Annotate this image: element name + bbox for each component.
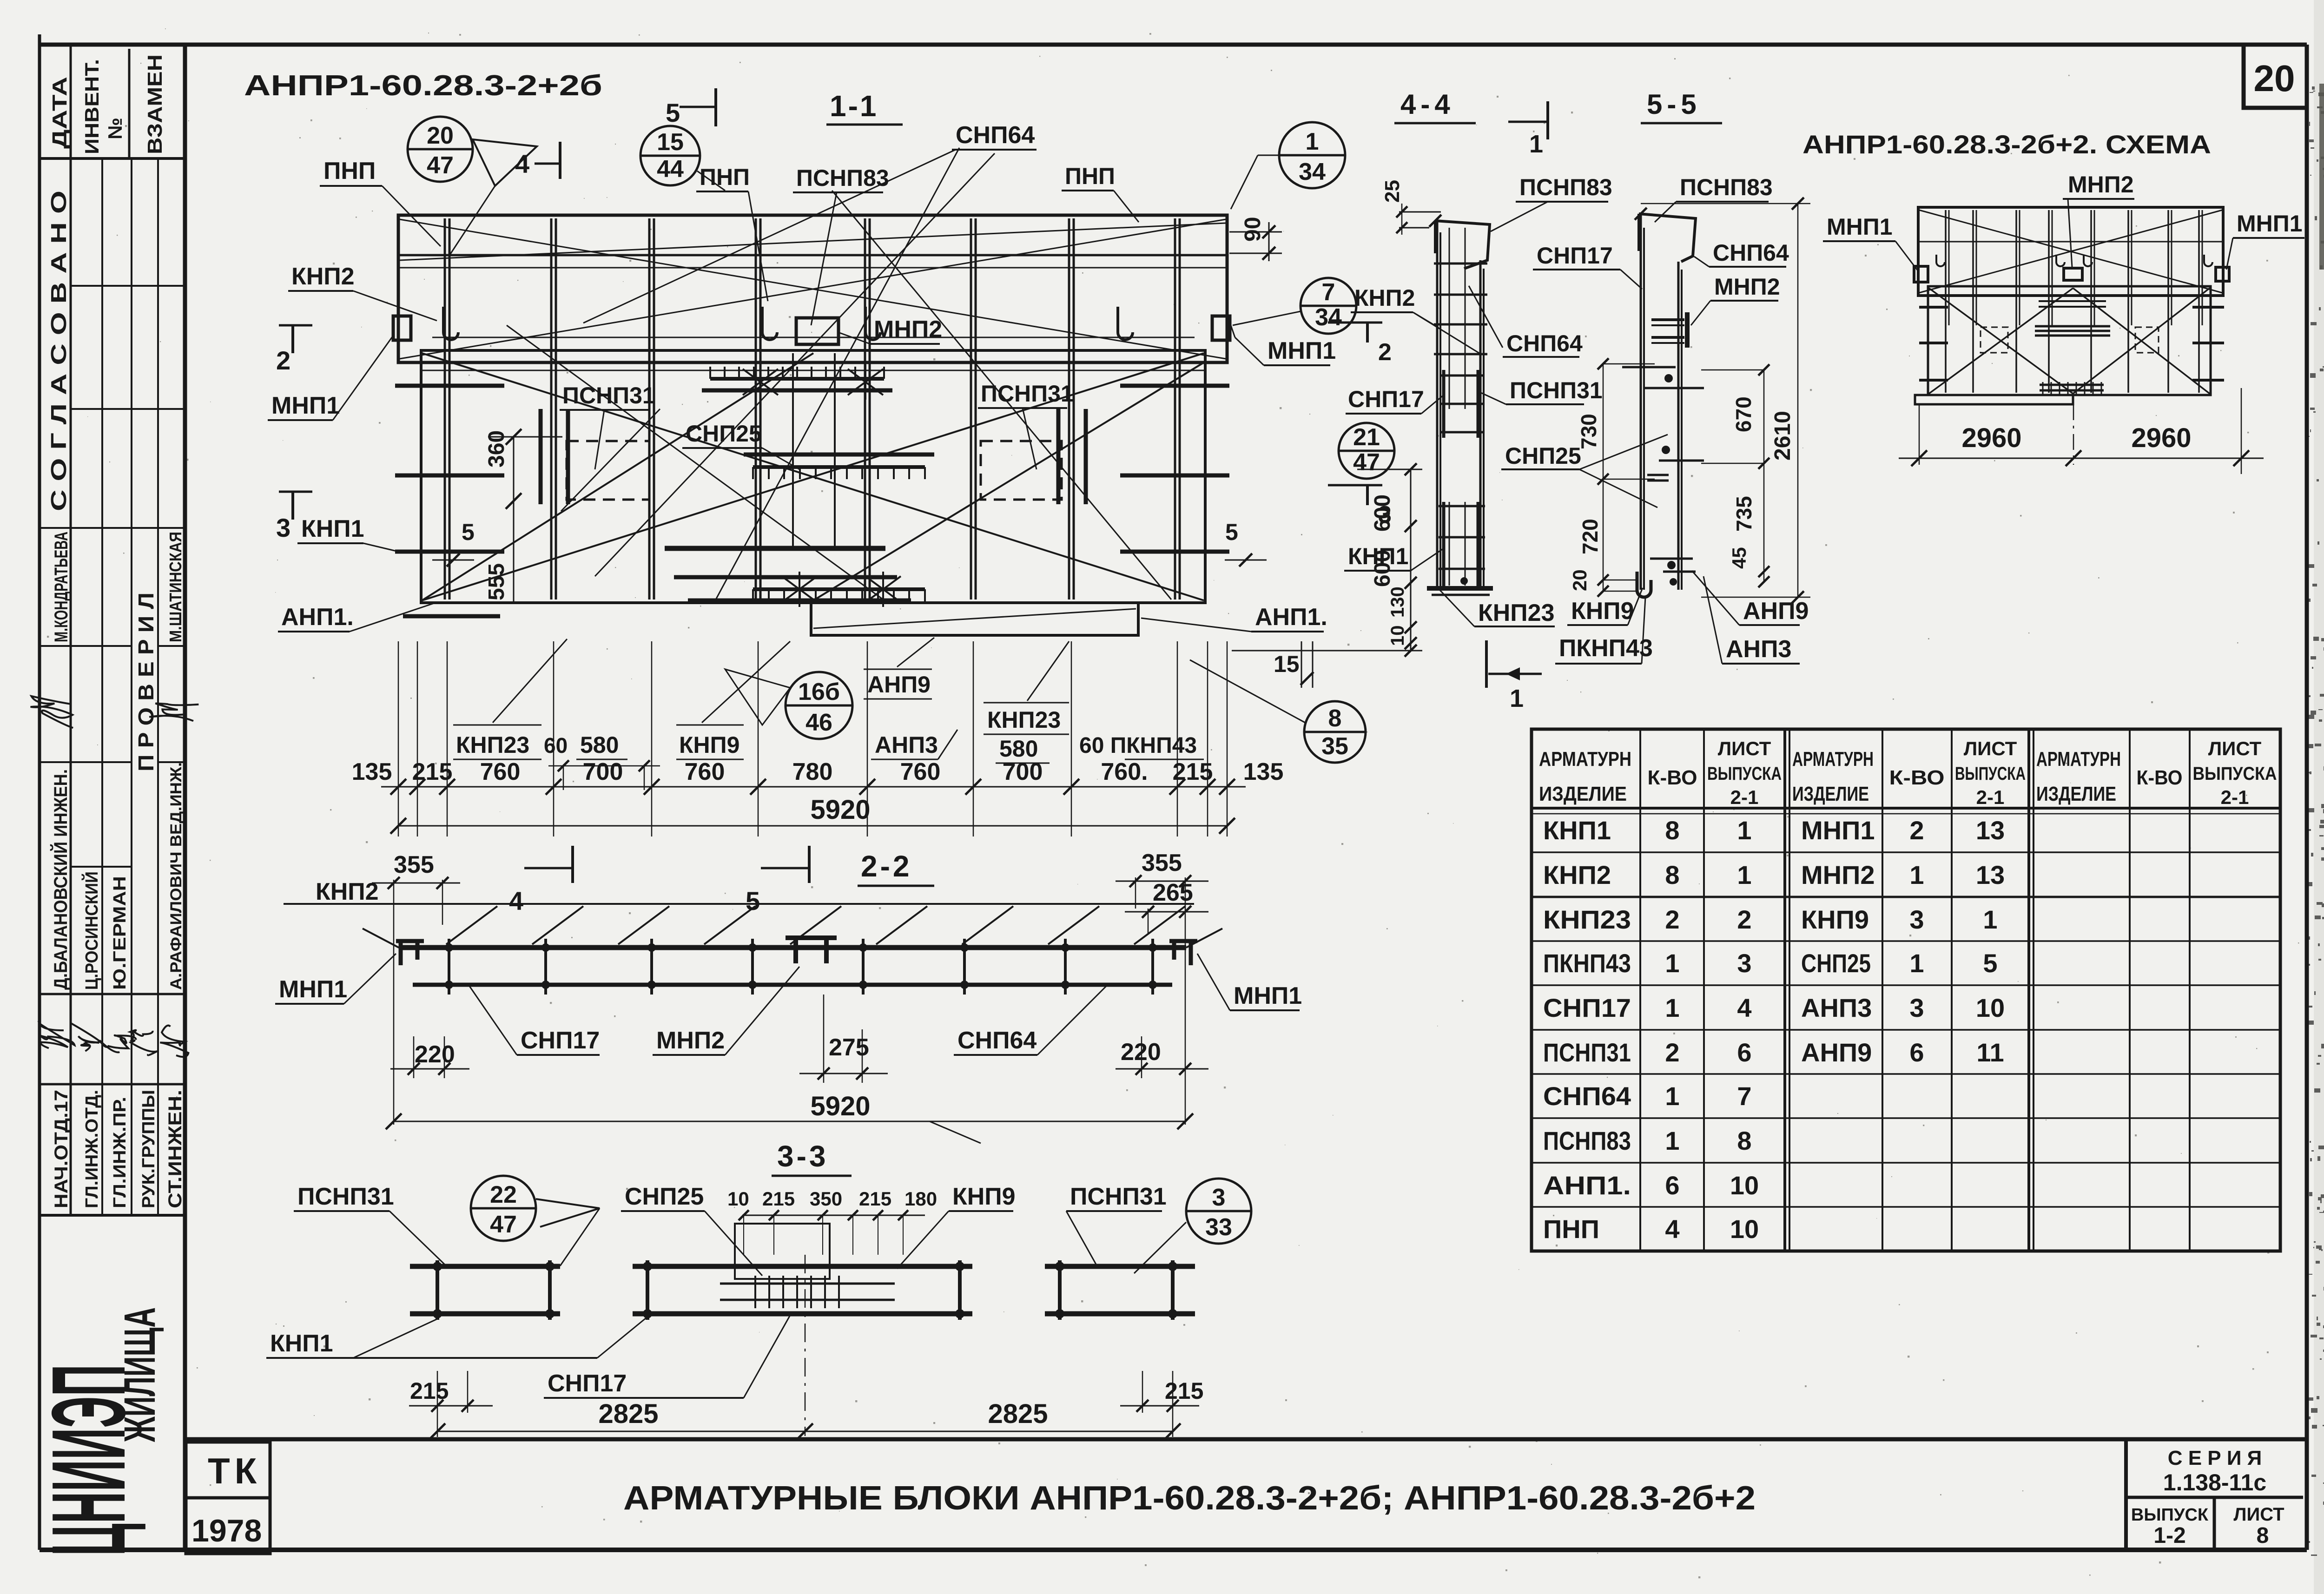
svg-text:5: 5 bbox=[1225, 519, 1238, 545]
section 2-2 top chord line bbox=[284, 903, 1194, 905]
svg-text:КНП1: КНП1 bbox=[1543, 816, 1611, 845]
svg-text:ГЛ.ИНЖ.ПР.: ГЛ.ИНЖ.ПР. bbox=[110, 1097, 130, 1208]
dimension line row2 total 5920 bbox=[398, 825, 1227, 827]
svg-text:С Е Р И Я: С Е Р И Я bbox=[2168, 1447, 2262, 1469]
svg-text:МНП2: МНП2 bbox=[874, 316, 942, 343]
schema bottom protrusion bbox=[1915, 395, 2073, 404]
svg-text:2610: 2610 bbox=[1770, 411, 1795, 461]
svg-text:7: 7 bbox=[1322, 279, 1335, 306]
svg-text:ЛИСТ: ЛИСТ bbox=[2233, 1504, 2284, 1525]
svg-text:760: 760 bbox=[685, 758, 725, 785]
svg-text:2: 2 bbox=[1665, 905, 1679, 934]
svg-text:46: 46 bbox=[805, 709, 832, 736]
callout circle 21/47 bbox=[1339, 423, 1394, 479]
svg-text:1.138-11с: 1.138-11с bbox=[2163, 1469, 2266, 1495]
4-4 rails bbox=[1436, 221, 1439, 588]
svg-text:СНП64: СНП64 bbox=[957, 1027, 1037, 1054]
svg-text:3: 3 bbox=[1909, 993, 1924, 1022]
svg-text:М.ШАТИНСКАЯ: М.ШАТИНСКАЯ bbox=[166, 532, 185, 642]
svg-text:КНП23: КНП23 bbox=[456, 732, 529, 758]
svg-text:ВЫПУСК: ВЫПУСК bbox=[2131, 1505, 2209, 1525]
svg-text:ИЗДЕЛИЕ: ИЗДЕЛИЕ bbox=[2036, 783, 2116, 805]
svg-text:РУК.ГРУППЫ: РУК.ГРУППЫ bbox=[139, 1090, 158, 1208]
svg-text:13: 13 bbox=[1976, 860, 2005, 889]
section 2-2 MNP1 end bracket left bbox=[396, 941, 424, 965]
svg-text:СНП17: СНП17 bbox=[548, 1370, 627, 1397]
svg-text:3: 3 bbox=[1378, 501, 1392, 528]
dimension line row1 bbox=[381, 786, 1246, 788]
plan view: band cross diagonals bbox=[400, 219, 1226, 359]
schema side cross bars bbox=[1919, 306, 1948, 309]
svg-text:135: 135 bbox=[352, 758, 392, 785]
svg-text:5920: 5920 bbox=[810, 1091, 870, 1121]
svg-text:34: 34 bbox=[1315, 304, 1342, 331]
svg-text:ВЫПУСКА: ВЫПУСКА bbox=[1707, 764, 1782, 784]
svg-text:ПНП: ПНП bbox=[1065, 163, 1115, 189]
svg-text:8: 8 bbox=[2257, 1523, 2269, 1548]
svg-text:360: 360 bbox=[484, 430, 509, 468]
plan view: PSNP31 heavy double bars right bbox=[1056, 409, 1061, 504]
svg-text:6: 6 bbox=[1909, 1038, 1924, 1067]
section 2-2 top chord thick bar bbox=[399, 945, 1186, 950]
svg-text:8: 8 bbox=[1665, 860, 1679, 889]
svg-text:2-2: 2-2 bbox=[861, 850, 912, 883]
svg-text:1978: 1978 bbox=[191, 1513, 262, 1548]
svg-text:670: 670 bbox=[1731, 396, 1756, 432]
svg-text:1: 1 bbox=[1737, 860, 1751, 889]
svg-text:СНП17: СНП17 bbox=[1543, 993, 1631, 1022]
svg-text:№: № bbox=[104, 118, 126, 139]
svg-text:13: 13 bbox=[1976, 816, 2005, 845]
plan view: MNP2 plate center bbox=[796, 318, 838, 344]
svg-text:215: 215 bbox=[1173, 758, 1213, 785]
svg-text:4: 4 bbox=[1737, 993, 1751, 1022]
plan view: bottom left thick bars bbox=[403, 614, 500, 619]
4-4 inner rebar verticals bbox=[1449, 228, 1450, 409]
svg-text:6: 6 bbox=[1737, 1038, 1751, 1067]
svg-text:А.РАФАИЛОВИЧ ВЕД.ИНЖ.: А.РАФАИЛОВИЧ ВЕД.ИНЖ. bbox=[167, 762, 185, 990]
svg-text:5920: 5920 bbox=[810, 795, 870, 825]
svg-text:КНП9: КНП9 bbox=[1571, 598, 1634, 625]
parts table grid bbox=[1532, 729, 2280, 1251]
svg-text:С О Г Л А С О В А Н О: С О Г Л А С О В А Н О bbox=[46, 191, 71, 511]
plan view: vertical rebar pairs bbox=[444, 218, 446, 599]
scanned paper right edge artifacts bbox=[2314, 0, 2324, 1594]
3-3 channel segment left bbox=[410, 1264, 560, 1269]
svg-text:25: 25 bbox=[1381, 180, 1404, 203]
weld flag pennant from 20/47 bbox=[473, 139, 537, 186]
plan view: dashed opening left bbox=[567, 441, 649, 500]
svg-text:КНП9: КНП9 bbox=[952, 1183, 1016, 1210]
svg-text:735: 735 bbox=[1732, 496, 1756, 532]
svg-text:20: 20 bbox=[427, 122, 454, 149]
svg-text:КНП9: КНП9 bbox=[679, 732, 739, 758]
svg-text:АРМАТУРН: АРМАТУРН bbox=[1792, 748, 1874, 771]
svg-text:2960: 2960 bbox=[1961, 423, 2021, 453]
4-4 base bar bbox=[1427, 586, 1493, 591]
svg-text:МНП1: МНП1 bbox=[1801, 816, 1875, 845]
svg-text:35: 35 bbox=[1321, 733, 1348, 760]
svg-text:1: 1 bbox=[1909, 860, 1924, 889]
svg-text:ЖИЛИЩА: ЖИЛИЩА bbox=[115, 1307, 165, 1443]
svg-text:М.КОНДРАТЬЕВА: М.КОНДРАТЬЕВА bbox=[51, 532, 72, 642]
svg-text:730: 730 bbox=[1577, 414, 1601, 449]
svg-text:180: 180 bbox=[905, 1188, 937, 1210]
callout circle 16b/46 bbox=[786, 672, 852, 739]
svg-text:45: 45 bbox=[1728, 547, 1750, 569]
svg-text:СНП64: СНП64 bbox=[956, 122, 1035, 149]
svg-text:4: 4 bbox=[515, 149, 529, 178]
left block row lines bbox=[71, 285, 185, 287]
svg-text:555: 555 bbox=[484, 563, 509, 600]
callout circle 1/34 bbox=[1279, 122, 1345, 188]
svg-text:6: 6 bbox=[1665, 1171, 1679, 1200]
4-4 upper rungs bbox=[1434, 263, 1487, 265]
schema body X diagonals bbox=[1929, 288, 2073, 394]
svg-text:МНП1: МНП1 bbox=[271, 392, 340, 419]
svg-text:ПСНП31: ПСНП31 bbox=[562, 382, 655, 408]
svg-text:10: 10 bbox=[1387, 626, 1408, 646]
svg-text:8: 8 bbox=[1665, 816, 1679, 845]
svg-text:АНПР1-60.28.3-2б+2. СХЕМА: АНПР1-60.28.3-2б+2. СХЕМА bbox=[1802, 130, 2211, 159]
svg-text:СТ.ИНЖЕН.: СТ.ИНЖЕН. bbox=[165, 1090, 185, 1208]
svg-text:МНП1: МНП1 bbox=[1234, 982, 1302, 1009]
signature row squiggles bbox=[33, 1022, 78, 1056]
plan view: bottom protruding member bbox=[811, 603, 1138, 635]
svg-text:1: 1 bbox=[1510, 685, 1524, 712]
section 2-2 MNP1 end bracket right bbox=[1169, 941, 1197, 965]
plan view: MNP1 plate right bbox=[1212, 316, 1230, 340]
5-5 rungs and node dots bbox=[1622, 366, 1676, 369]
svg-text:2-1: 2-1 bbox=[2221, 786, 2249, 808]
svg-text:СНП25: СНП25 bbox=[1505, 443, 1581, 469]
svg-text:АНП1.: АНП1. bbox=[1543, 1171, 1631, 1200]
svg-text:10: 10 bbox=[1730, 1214, 1759, 1244]
schema vertical bars bbox=[1945, 210, 1947, 393]
svg-text:ИЗДЕЛИЕ: ИЗДЕЛИЕ bbox=[1792, 783, 1869, 805]
leaders from sub labels up into plan bbox=[493, 639, 567, 723]
svg-text:П Р О В Е Р И Л: П Р О В Е Р И Л bbox=[134, 593, 158, 771]
svg-text:СНП17: СНП17 bbox=[1537, 243, 1613, 269]
5-5 top flange bbox=[1639, 214, 1696, 262]
svg-text:215: 215 bbox=[412, 758, 453, 785]
svg-text:2-1: 2-1 bbox=[1730, 786, 1759, 808]
svg-text:7: 7 bbox=[1737, 1081, 1751, 1111]
svg-text:2: 2 bbox=[1665, 1038, 1679, 1067]
svg-text:СНП64: СНП64 bbox=[1506, 330, 1583, 356]
3-3 center axis line bbox=[805, 1255, 806, 1436]
svg-text:2: 2 bbox=[1378, 339, 1392, 366]
svg-text:1: 1 bbox=[1665, 993, 1679, 1022]
svg-text:ПНП: ПНП bbox=[324, 158, 376, 184]
svg-text:ДАТА: ДАТА bbox=[48, 77, 71, 149]
plan view: PSNP31 heavy double bars left bbox=[539, 409, 543, 504]
svg-text:8: 8 bbox=[1328, 705, 1342, 732]
svg-text:1: 1 bbox=[1983, 905, 1997, 934]
svg-text:10: 10 bbox=[1730, 1171, 1759, 1200]
svg-text:АНП9: АНП9 bbox=[867, 672, 931, 698]
section 2-2 hatch diagonals bbox=[446, 906, 497, 944]
svg-text:15: 15 bbox=[657, 129, 684, 156]
svg-text:КНП1: КНП1 bbox=[270, 1330, 333, 1357]
5-5 MNP2 bracket bbox=[1651, 318, 1684, 321]
svg-text:АРМАТУРН: АРМАТУРН bbox=[1539, 748, 1631, 771]
5-5 rails bbox=[1640, 214, 1642, 590]
svg-text:К-ВО: К-ВО bbox=[2137, 766, 2183, 789]
section 2-2 MNP2 center bracket bbox=[786, 938, 837, 963]
svg-text:130: 130 bbox=[1387, 586, 1408, 618]
svg-text:33: 33 bbox=[1205, 1214, 1232, 1241]
svg-text:Ц.РОСИНСКИЙ: Ц.РОСИНСКИЙ bbox=[81, 871, 102, 990]
svg-text:215: 215 bbox=[762, 1188, 795, 1210]
schema lower body bbox=[1928, 286, 2211, 395]
section 2-2 end slopes bbox=[363, 929, 399, 948]
svg-text:10: 10 bbox=[1976, 993, 2005, 1022]
svg-text:1: 1 bbox=[1737, 816, 1751, 845]
svg-text:ВЗАМЕН: ВЗАМЕН bbox=[144, 54, 166, 154]
svg-text:3-3: 3-3 bbox=[777, 1140, 829, 1173]
schema MNP2 plate center bbox=[2064, 268, 2082, 280]
svg-text:КНП1: КНП1 bbox=[301, 515, 364, 542]
svg-text:КНП23: КНП23 bbox=[1543, 905, 1631, 934]
TK year box bbox=[186, 1442, 270, 1498]
3-3 channel segment right bbox=[1045, 1264, 1195, 1269]
svg-text:60: 60 bbox=[544, 733, 568, 757]
callout circle 3/33 bbox=[1186, 1179, 1251, 1244]
3-3 channel segment middle bbox=[633, 1264, 972, 1269]
svg-text:355: 355 bbox=[394, 851, 434, 878]
svg-text:47: 47 bbox=[427, 152, 454, 179]
svg-text:МНП1: МНП1 bbox=[2237, 211, 2303, 237]
svg-text:5: 5 bbox=[1983, 948, 1997, 978]
svg-text:2-1: 2-1 bbox=[1976, 786, 2005, 808]
svg-text:ПНП: ПНП bbox=[1543, 1214, 1599, 1244]
svg-text:МНП2: МНП2 bbox=[1714, 274, 1780, 300]
plan view: dashed opening right bbox=[981, 441, 1062, 500]
svg-text:2: 2 bbox=[1737, 905, 1751, 934]
svg-text:760: 760 bbox=[480, 758, 521, 785]
svg-text:МНП2: МНП2 bbox=[1801, 860, 1875, 889]
svg-text:580: 580 bbox=[580, 732, 619, 758]
svg-text:3: 3 bbox=[276, 513, 290, 542]
svg-text:16б: 16б bbox=[798, 678, 840, 705]
svg-text:АНП9: АНП9 bbox=[1743, 598, 1809, 625]
svg-text:1-1: 1-1 bbox=[830, 89, 878, 123]
svg-text:ИНВЕНТ.: ИНВЕНТ. bbox=[81, 59, 103, 154]
callout circle 22/47 bbox=[471, 1176, 536, 1241]
svg-text:АНП9: АНП9 bbox=[1801, 1038, 1872, 1067]
svg-text:47: 47 bbox=[490, 1211, 517, 1238]
plan view: central welded mesh combs bbox=[710, 377, 884, 381]
schema dashed openings bbox=[1981, 327, 2008, 353]
svg-text:ТК: ТК bbox=[208, 1450, 261, 1491]
svg-text:60 ПКНП43: 60 ПКНП43 bbox=[1079, 733, 1197, 758]
section 2-2 studs with dots bbox=[448, 939, 450, 995]
svg-text:355: 355 bbox=[1142, 850, 1182, 876]
bottom section mark 1 bbox=[1485, 640, 1488, 688]
plan view: PSNP83 hanger verticals bbox=[792, 353, 794, 548]
svg-text:Д.БАЛАНОВСКИЙ ИНЖЕН.: Д.БАЛАНОВСКИЙ ИНЖЕН. bbox=[50, 769, 71, 990]
5-5 bottom hook bbox=[1637, 572, 1651, 597]
svg-text:МНП1: МНП1 bbox=[1268, 337, 1336, 364]
svg-text:СНП17: СНП17 bbox=[521, 1027, 600, 1054]
svg-text:350: 350 bbox=[810, 1188, 842, 1210]
left title block column grid bbox=[70, 45, 72, 1215]
svg-text:ПСНП31: ПСНП31 bbox=[297, 1183, 394, 1210]
svg-text:КНП2: КНП2 bbox=[316, 878, 379, 905]
svg-text:700: 700 bbox=[583, 758, 623, 785]
svg-text:2825: 2825 bbox=[988, 1399, 1048, 1429]
svg-text:265: 265 bbox=[1153, 879, 1193, 906]
callout circle 7/34 bbox=[1301, 278, 1356, 334]
schema MNP1 plate right bbox=[2216, 267, 2229, 281]
4-4 lower KNP23 insert bbox=[1442, 502, 1446, 588]
svg-text:215: 215 bbox=[859, 1188, 891, 1210]
svg-text:3: 3 bbox=[1909, 905, 1924, 934]
svg-text:К-ВО: К-ВО bbox=[1889, 766, 1945, 789]
svg-text:СНП25: СНП25 bbox=[686, 421, 762, 447]
svg-text:СНП64: СНП64 bbox=[1713, 240, 1789, 266]
series stamp box bbox=[2124, 1439, 2128, 1550]
svg-text:ВЫПУСКА: ВЫПУСКА bbox=[2193, 764, 2277, 784]
plan view: right edge cross bars bbox=[1120, 384, 1229, 388]
svg-text:АНП1.: АНП1. bbox=[1255, 604, 1327, 631]
svg-text:АРМАТУРН: АРМАТУРН bbox=[2036, 748, 2121, 771]
svg-text:47: 47 bbox=[1353, 449, 1380, 476]
svg-text:4: 4 bbox=[1665, 1214, 1679, 1244]
outer page border frame bbox=[40, 43, 2307, 47]
svg-text:215: 215 bbox=[1165, 1378, 1203, 1404]
svg-text:ПКНП43: ПКНП43 bbox=[1543, 948, 1631, 978]
svg-text:1: 1 bbox=[1909, 948, 1924, 978]
svg-text:ПСНП31: ПСНП31 bbox=[1510, 377, 1603, 403]
plan view: star splice marks bbox=[743, 364, 778, 400]
svg-text:21: 21 bbox=[1353, 424, 1380, 451]
svg-text:2825: 2825 bbox=[598, 1399, 658, 1429]
svg-text:22: 22 bbox=[490, 1181, 517, 1208]
svg-text:ЛИСТ: ЛИСТ bbox=[1718, 738, 1771, 759]
svg-text:2: 2 bbox=[1909, 816, 1924, 845]
svg-text:1: 1 bbox=[1665, 1126, 1679, 1155]
svg-text:КНП2: КНП2 bbox=[291, 263, 355, 290]
svg-text:НАЧ.ОТД.17: НАЧ.ОТД.17 bbox=[51, 1090, 72, 1208]
svg-text:АНПР1-60.28.3-2+2б: АНПР1-60.28.3-2+2б bbox=[244, 70, 602, 102]
svg-text:МНП2: МНП2 bbox=[656, 1027, 725, 1054]
plan view: lower rect big X diagonals bbox=[422, 353, 1204, 600]
svg-text:К-ВО: К-ВО bbox=[1648, 766, 1697, 789]
bottom title strip frame bbox=[185, 1437, 2307, 1442]
svg-text:ЛИСТ: ЛИСТ bbox=[1964, 738, 2017, 759]
svg-text:20: 20 bbox=[2254, 58, 2295, 99]
svg-text:4-4: 4-4 bbox=[1400, 89, 1455, 120]
svg-text:ЛИСТ: ЛИСТ bbox=[2208, 738, 2262, 759]
svg-text:34: 34 bbox=[1299, 158, 1326, 185]
svg-text:СНП17: СНП17 bbox=[1348, 386, 1424, 412]
page number 20 box bbox=[2244, 46, 2307, 108]
svg-text:1: 1 bbox=[1529, 130, 1543, 158]
svg-text:1: 1 bbox=[1306, 128, 1319, 155]
svg-text:ПНП: ПНП bbox=[700, 164, 750, 190]
svg-text:3: 3 bbox=[1212, 1184, 1226, 1211]
svg-text:90: 90 bbox=[1241, 217, 1265, 242]
svg-text:ПСНП31: ПСНП31 bbox=[1070, 1183, 1167, 1210]
svg-text:760: 760 bbox=[900, 758, 941, 785]
svg-text:ПСНП83: ПСНП83 bbox=[1519, 174, 1612, 200]
schema dimension 2960+2960 bbox=[1919, 404, 1920, 465]
svg-text:АНП3: АНП3 bbox=[1726, 636, 1791, 663]
svg-text:720: 720 bbox=[1578, 519, 1602, 554]
schema center hatches bbox=[2039, 300, 2106, 302]
svg-text:АНП3: АНП3 bbox=[1801, 993, 1872, 1022]
svg-text:КНП23: КНП23 bbox=[987, 707, 1061, 733]
svg-text:КНП2: КНП2 bbox=[1543, 860, 1611, 889]
svg-text:780: 780 bbox=[792, 758, 833, 785]
svg-text:5-5: 5-5 bbox=[1647, 89, 1701, 120]
svg-text:ВЫПУСКА: ВЫПУСКА bbox=[1955, 764, 2026, 784]
svg-text:11: 11 bbox=[1976, 1038, 2004, 1067]
svg-text:КНП2: КНП2 bbox=[1354, 285, 1415, 311]
plan view: MNP1 plate left bbox=[393, 316, 411, 340]
svg-text:3: 3 bbox=[1737, 948, 1751, 978]
svg-text:ПСНП31: ПСНП31 bbox=[981, 381, 1074, 407]
svg-text:ИЗДЕЛИЕ: ИЗДЕЛИЕ bbox=[1539, 783, 1627, 805]
svg-text:15: 15 bbox=[1274, 651, 1300, 677]
dimension chain extension lines bbox=[398, 641, 399, 837]
svg-text:2960: 2960 bbox=[2131, 423, 2191, 453]
svg-text:220: 220 bbox=[1121, 1039, 1161, 1066]
svg-text:135: 135 bbox=[1243, 758, 1284, 785]
plan view: top band outline bbox=[398, 215, 1227, 362]
svg-text:МНП1: МНП1 bbox=[1827, 214, 1893, 240]
svg-text:275: 275 bbox=[829, 1034, 869, 1061]
svg-text:ГЛ.ИНЖ.ОТД.: ГЛ.ИНЖ.ОТД. bbox=[82, 1090, 102, 1208]
schema upper band outline bbox=[1918, 207, 2223, 296]
svg-text:580: 580 bbox=[999, 736, 1038, 762]
signature squiggle col1 bbox=[26, 696, 78, 728]
schema U hooks bbox=[1936, 255, 1945, 266]
svg-text:АРМАТУРНЫЕ БЛОКИ АНПР1-60.28: АРМАТУРНЫЕ БЛОКИ АНПР1-60.28.3-2+2б; АНП… bbox=[623, 1480, 1756, 1517]
plan view: left edge cross bars bbox=[395, 384, 504, 388]
svg-text:Ю.ГЕРМАН: Ю.ГЕРМАН bbox=[110, 876, 130, 990]
4-4 top flange bbox=[1435, 221, 1490, 269]
svg-text:2: 2 bbox=[276, 346, 290, 375]
svg-text:1: 1 bbox=[1665, 1081, 1679, 1111]
svg-text:ПСНП31: ПСНП31 bbox=[1543, 1038, 1631, 1067]
svg-text:АНП1.: АНП1. bbox=[281, 604, 354, 631]
schema MNP1 plate left bbox=[1914, 266, 1928, 282]
svg-text:10: 10 bbox=[727, 1188, 749, 1210]
schema band diagonals bbox=[1919, 210, 2222, 293]
svg-text:1: 1 bbox=[1665, 948, 1679, 978]
svg-text:760.: 760. bbox=[1101, 758, 1148, 785]
svg-text:СНП25: СНП25 bbox=[1801, 948, 1871, 978]
callout circle 20/47 bbox=[408, 117, 473, 182]
svg-text:АНП3: АНП3 bbox=[875, 732, 938, 758]
svg-text:5: 5 bbox=[666, 98, 680, 127]
callout circle 8/35 bbox=[1304, 701, 1366, 763]
svg-text:КНП1: КНП1 bbox=[1348, 543, 1408, 569]
svg-text:20: 20 bbox=[1569, 569, 1591, 591]
svg-text:4: 4 bbox=[509, 886, 523, 916]
svg-text:8: 8 bbox=[1737, 1126, 1751, 1155]
svg-text:5: 5 bbox=[462, 519, 475, 545]
svg-text:КНП23: КНП23 bbox=[1478, 599, 1555, 626]
svg-text:ПСНП83: ПСНП83 bbox=[1543, 1126, 1631, 1155]
svg-text:44: 44 bbox=[657, 156, 684, 183]
svg-text:СНП64: СНП64 bbox=[1543, 1081, 1631, 1111]
section 2-2 bottom chord thick bar bbox=[413, 983, 1172, 987]
plan view: lower rect inner line bbox=[421, 370, 1205, 371]
